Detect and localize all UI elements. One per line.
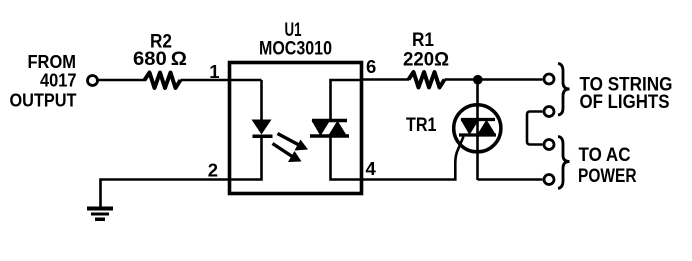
junction node xyxy=(473,75,483,85)
wire junction to lights terminal T1 xyxy=(478,78,543,81)
wire U1 phototriac top to pin 6 xyxy=(331,80,362,121)
svg-text:1: 1 xyxy=(209,61,219,82)
svg-text:6: 6 xyxy=(366,56,376,77)
brace for lights terminals xyxy=(558,64,570,116)
wire U1 pin 4 to TR1 gate xyxy=(362,137,464,180)
resistor R2 xyxy=(145,73,181,89)
svg-text:POWER: POWER xyxy=(578,166,637,187)
brace for AC terminals xyxy=(558,137,570,189)
svg-text:2: 2 xyxy=(208,160,218,181)
wire U1 phototriac bottom to pin 4 xyxy=(331,136,362,180)
terminal T1 to string of lights xyxy=(544,74,554,84)
terminal T4 to AC power xyxy=(544,175,554,185)
terminal T2 xyxy=(544,107,554,117)
node TO STRING OF LIGHTS label xyxy=(580,75,673,114)
svg-text:680 Ω: 680 Ω xyxy=(133,49,187,70)
svg-text:4017: 4017 xyxy=(40,70,77,91)
svg-text:TO AC: TO AC xyxy=(579,145,631,166)
wire U1 internal LED cathode to pin 2 xyxy=(230,138,262,180)
light emission arrows xyxy=(273,134,309,163)
wire R1 to junction xyxy=(445,78,478,81)
node FROM 4017 OUTPUT label xyxy=(10,51,78,111)
svg-text:TR1: TR1 xyxy=(406,115,437,136)
svg-text:MOC3010: MOC3010 xyxy=(259,39,332,60)
triac TR1 xyxy=(454,105,501,152)
terminal T3 xyxy=(544,140,554,150)
svg-text:220Ω: 220Ω xyxy=(403,50,449,71)
svg-text:OF LIGHTS: OF LIGHTS xyxy=(580,92,670,113)
LED diode in U1 xyxy=(252,120,273,137)
wire U1 internal LED anode xyxy=(260,80,263,120)
resistor R2 value label xyxy=(133,32,187,71)
optocoupler U1 box xyxy=(230,63,362,194)
wire U1 pin 6 to R1 xyxy=(362,78,410,81)
wire R2 to U1 pin 1 xyxy=(181,79,262,82)
node TO AC POWER label xyxy=(578,145,637,187)
wire TR1 to AC terminal T4 xyxy=(478,178,543,181)
resistor R1 value label xyxy=(403,30,449,71)
input terminal xyxy=(88,76,98,86)
U1 label xyxy=(259,20,332,60)
phototriac in U1 xyxy=(310,121,349,137)
svg-text:4: 4 xyxy=(366,158,377,179)
resistor R1 xyxy=(409,72,445,88)
wire input terminal to R2 xyxy=(99,79,147,82)
ground xyxy=(87,207,113,222)
wire ground stem horizontal xyxy=(101,180,230,207)
svg-text:OUTPUT: OUTPUT xyxy=(10,90,78,111)
svg-text:R1: R1 xyxy=(412,30,434,51)
wire junction down to TR1 xyxy=(476,80,479,180)
wire bracket T2 to T3 xyxy=(527,112,543,145)
